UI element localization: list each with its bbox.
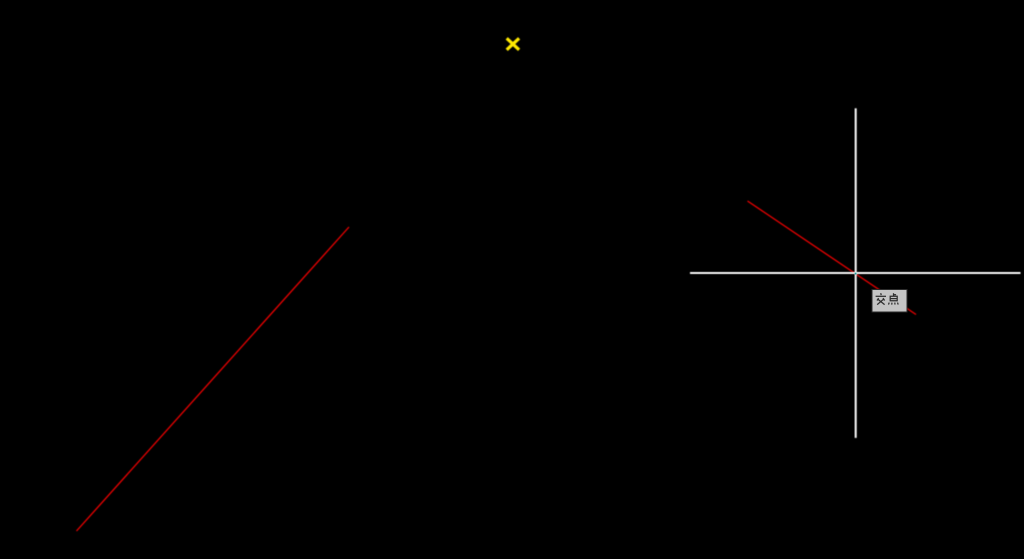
cyan pixel at crosshair intersection [855,273,857,275]
red line L2 (upper-right diagonal through crosshair) [748,201,917,315]
crosshair vertical line [855,108,857,438]
tooltip glyph 交 [876,293,886,304]
osnap tooltip box [872,290,907,313]
crosshair horizontal line [690,272,1021,274]
red line L1 (lower-left diagonal) [77,227,350,531]
yellow X point marker [507,38,519,50]
tooltip glyph 点 [889,293,899,304]
